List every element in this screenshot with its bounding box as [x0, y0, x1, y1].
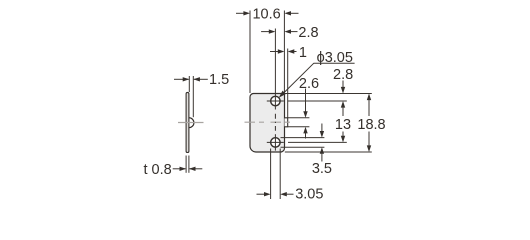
dimension 1 right arrow line — [294, 51, 297, 53]
hole H2 vertical crosshair — [274, 134, 276, 150]
dimension 2.8 top left arrow line — [261, 31, 269, 33]
dimension 2.6 lower arrowhead — [303, 127, 307, 134]
extension line sheet right face up — [188, 76, 190, 92]
dimension 3.5 upper arrow line — [321, 124, 323, 132]
svg-text:2.8: 2.8 — [333, 67, 353, 83]
dimension 13 top arrowhead — [341, 101, 345, 108]
front view plate outline — [250, 94, 285, 153]
hole H1 horizontal crosshair — [267, 100, 284, 102]
dimension 1.5 left arrowhead — [183, 77, 190, 81]
dimension 2.8 right arrowhead down — [341, 87, 345, 94]
extension line top edge right — [285, 93, 372, 95]
leader arrowhead phi3.05 — [277, 91, 286, 100]
dimension 10.6 right arrow line — [291, 12, 299, 14]
dimension 1.5 left arrow line — [174, 78, 189, 80]
extension line bump tip up — [192, 76, 194, 117]
dimension 3.05 right arrowhead — [280, 192, 287, 196]
svg-text:2.8: 2.8 — [298, 25, 318, 41]
dimension t0.8 left arrow line — [173, 168, 186, 170]
dimension 1.5 right arrowhead — [193, 77, 200, 81]
dimension 2.6 upper arrow line — [305, 89, 307, 113]
side view sheet body — [186, 92, 189, 152]
dimension 2.8 top right arrow line — [291, 31, 298, 33]
svg-text:10.6: 10.6 — [252, 7, 280, 23]
dimension 1 right arrowhead — [288, 49, 295, 53]
dimension 2.6 lower arrow line — [305, 132, 307, 138]
dimension 18.8 bottom arrowhead — [367, 145, 371, 152]
dimension 3.05 left arrow line — [257, 193, 265, 195]
dimension 1 left arrowhead — [278, 49, 285, 53]
extension line hole left tangent down — [270, 149, 272, 200]
dimension t0.8 right arrow line — [190, 168, 203, 170]
dimension 10.6 left arrow line — [236, 12, 244, 14]
vertical centerline between holes — [274, 114, 276, 131]
svg-text:18.8: 18.8 — [357, 117, 385, 133]
extension line hole center up / H1 vertical crosshair — [274, 29, 276, 110]
front view horizontal centerline — [245, 121, 295, 123]
dimension t0.8 left arrowhead — [180, 167, 187, 171]
side view bump arc — [189, 118, 194, 128]
extension line bump top right — [288, 117, 310, 119]
dimension 13 bottom arrowhead — [341, 136, 345, 143]
extension line plate right edge up — [283, 11, 285, 94]
svg-text:2.6: 2.6 — [299, 76, 319, 92]
extension line H2 top tangent right — [281, 137, 325, 139]
dimension 10.6 right arrowhead — [284, 11, 291, 15]
side view centerline — [178, 122, 204, 124]
dimension 2.6 upper arrowhead — [303, 111, 307, 118]
dimension 3.5 lower arrowhead — [320, 147, 324, 154]
dimension 2.8 right upper arrow line — [342, 81, 344, 88]
extension line bump bottom right — [288, 126, 310, 128]
extension line bump outer edge up — [287, 49, 289, 118]
dimension 3.05 left arrowhead — [264, 192, 271, 196]
hole H2 (bottom, round) — [271, 138, 280, 147]
svg-text:3.05: 3.05 — [295, 186, 323, 202]
dimension 10.6 left arrowhead — [243, 11, 250, 15]
dimension 3.05 right arrow line — [286, 193, 293, 195]
extension line H2 bottom tangent right — [281, 146, 325, 148]
dimension 3.5 upper arrowhead — [320, 131, 324, 138]
dimension 2.8 top right arrowhead — [284, 29, 291, 33]
leader underline phi3.05 — [314, 62, 355, 64]
extension line H2 center right — [288, 141, 347, 143]
dimension t0.8 right arrowhead — [189, 167, 196, 171]
dimension 18.8 line upper — [368, 99, 370, 116]
extension line bottom edge right — [285, 151, 372, 153]
dimension 18.8 line lower — [368, 132, 370, 147]
dimension 1.5 right arrow line — [194, 78, 208, 80]
dimension 2.8 top left arrowhead — [269, 29, 276, 33]
svg-text:3.5: 3.5 — [312, 161, 332, 177]
dimension 1 left arrow line — [270, 51, 279, 53]
extension line sheet right face down — [188, 156, 190, 173]
hole H1 (top, round) — [271, 96, 280, 105]
extension line sheet left face down — [185, 156, 187, 173]
dimension 18.8 top arrowhead — [367, 94, 371, 101]
extension line hole right tangent down — [279, 149, 281, 200]
leader line phi3.05 — [281, 63, 314, 96]
svg-text:1.5: 1.5 — [209, 72, 229, 88]
dimension 3.5 lower arrow line — [321, 153, 323, 162]
front view bump tab — [285, 118, 288, 127]
svg-text:13: 13 — [335, 117, 351, 133]
dimension 13 line upper — [342, 107, 344, 116]
hole H2 horizontal crosshair — [267, 141, 284, 143]
dimension 13 line lower — [342, 132, 344, 137]
extension line H1 center right — [288, 100, 347, 102]
extension line plate left edge up — [249, 11, 251, 94]
svg-text:1: 1 — [299, 45, 307, 61]
svg-text:t 0.8: t 0.8 — [144, 162, 172, 178]
